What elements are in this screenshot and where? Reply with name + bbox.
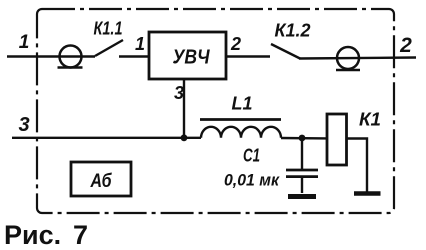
inductor L1 coil <box>201 127 281 138</box>
svg-text:Рис.: Рис. <box>4 220 61 250</box>
capacitor C1 bottom lead <box>301 177 303 193</box>
relay K1 coil rectangle <box>327 114 347 165</box>
svg-text:2: 2 <box>399 34 412 57</box>
jack XS2 base line <box>336 69 360 71</box>
wire K1.1 fixed contact to UVCh pin 1 <box>119 55 149 57</box>
battery block AB <box>71 162 131 196</box>
svg-text:2: 2 <box>230 34 241 54</box>
svg-text:Аб: Аб <box>90 171 113 192</box>
capacitor C1 plates <box>286 169 318 172</box>
node B junction dot <box>299 135 306 142</box>
node A junction dot <box>181 134 188 141</box>
wire coil to node B and relay K1 <box>281 137 327 140</box>
svg-text:1: 1 <box>19 32 30 53</box>
svg-text:1: 1 <box>135 34 145 54</box>
wire relay K1 right side to ground <box>347 139 368 193</box>
svg-text:7: 7 <box>73 220 88 250</box>
wire terminal 3 to node A <box>12 137 201 139</box>
switch K1.1 blade <box>95 40 123 56</box>
jack XS1 base line <box>58 66 83 68</box>
ground under C1 <box>288 194 316 199</box>
svg-text:L1: L1 <box>232 94 253 114</box>
inductor L1 core line <box>200 118 281 121</box>
wire UVCh pin 2 to K1.2 fixed contact <box>226 55 270 57</box>
svg-text:УВЧ: УВЧ <box>173 47 211 69</box>
ground under relay <box>354 191 381 196</box>
svg-text:0,01 мк: 0,01 мк <box>224 171 280 190</box>
capacitor C1 top lead <box>301 138 303 169</box>
svg-text:3: 3 <box>18 114 29 136</box>
svg-text:3: 3 <box>174 83 184 103</box>
wire terminal 1 to antenna jack <box>7 55 95 57</box>
svg-text:С1: С1 <box>243 146 260 166</box>
svg-text:К1.2: К1.2 <box>275 21 311 41</box>
jack XS1 circle <box>60 46 82 68</box>
svg-text:К1: К1 <box>359 110 381 130</box>
UVCh amplifier block U1 <box>149 32 226 79</box>
switch K1.2 blade <box>271 44 300 59</box>
jack XS2 circle <box>337 47 359 69</box>
wire UVCh pin 3 down to node A <box>183 79 185 138</box>
wire K1.2 pivot to jack 2 <box>299 58 416 59</box>
svg-text:К1.1: К1.1 <box>94 19 123 39</box>
dashed enclosure border <box>37 9 394 213</box>
